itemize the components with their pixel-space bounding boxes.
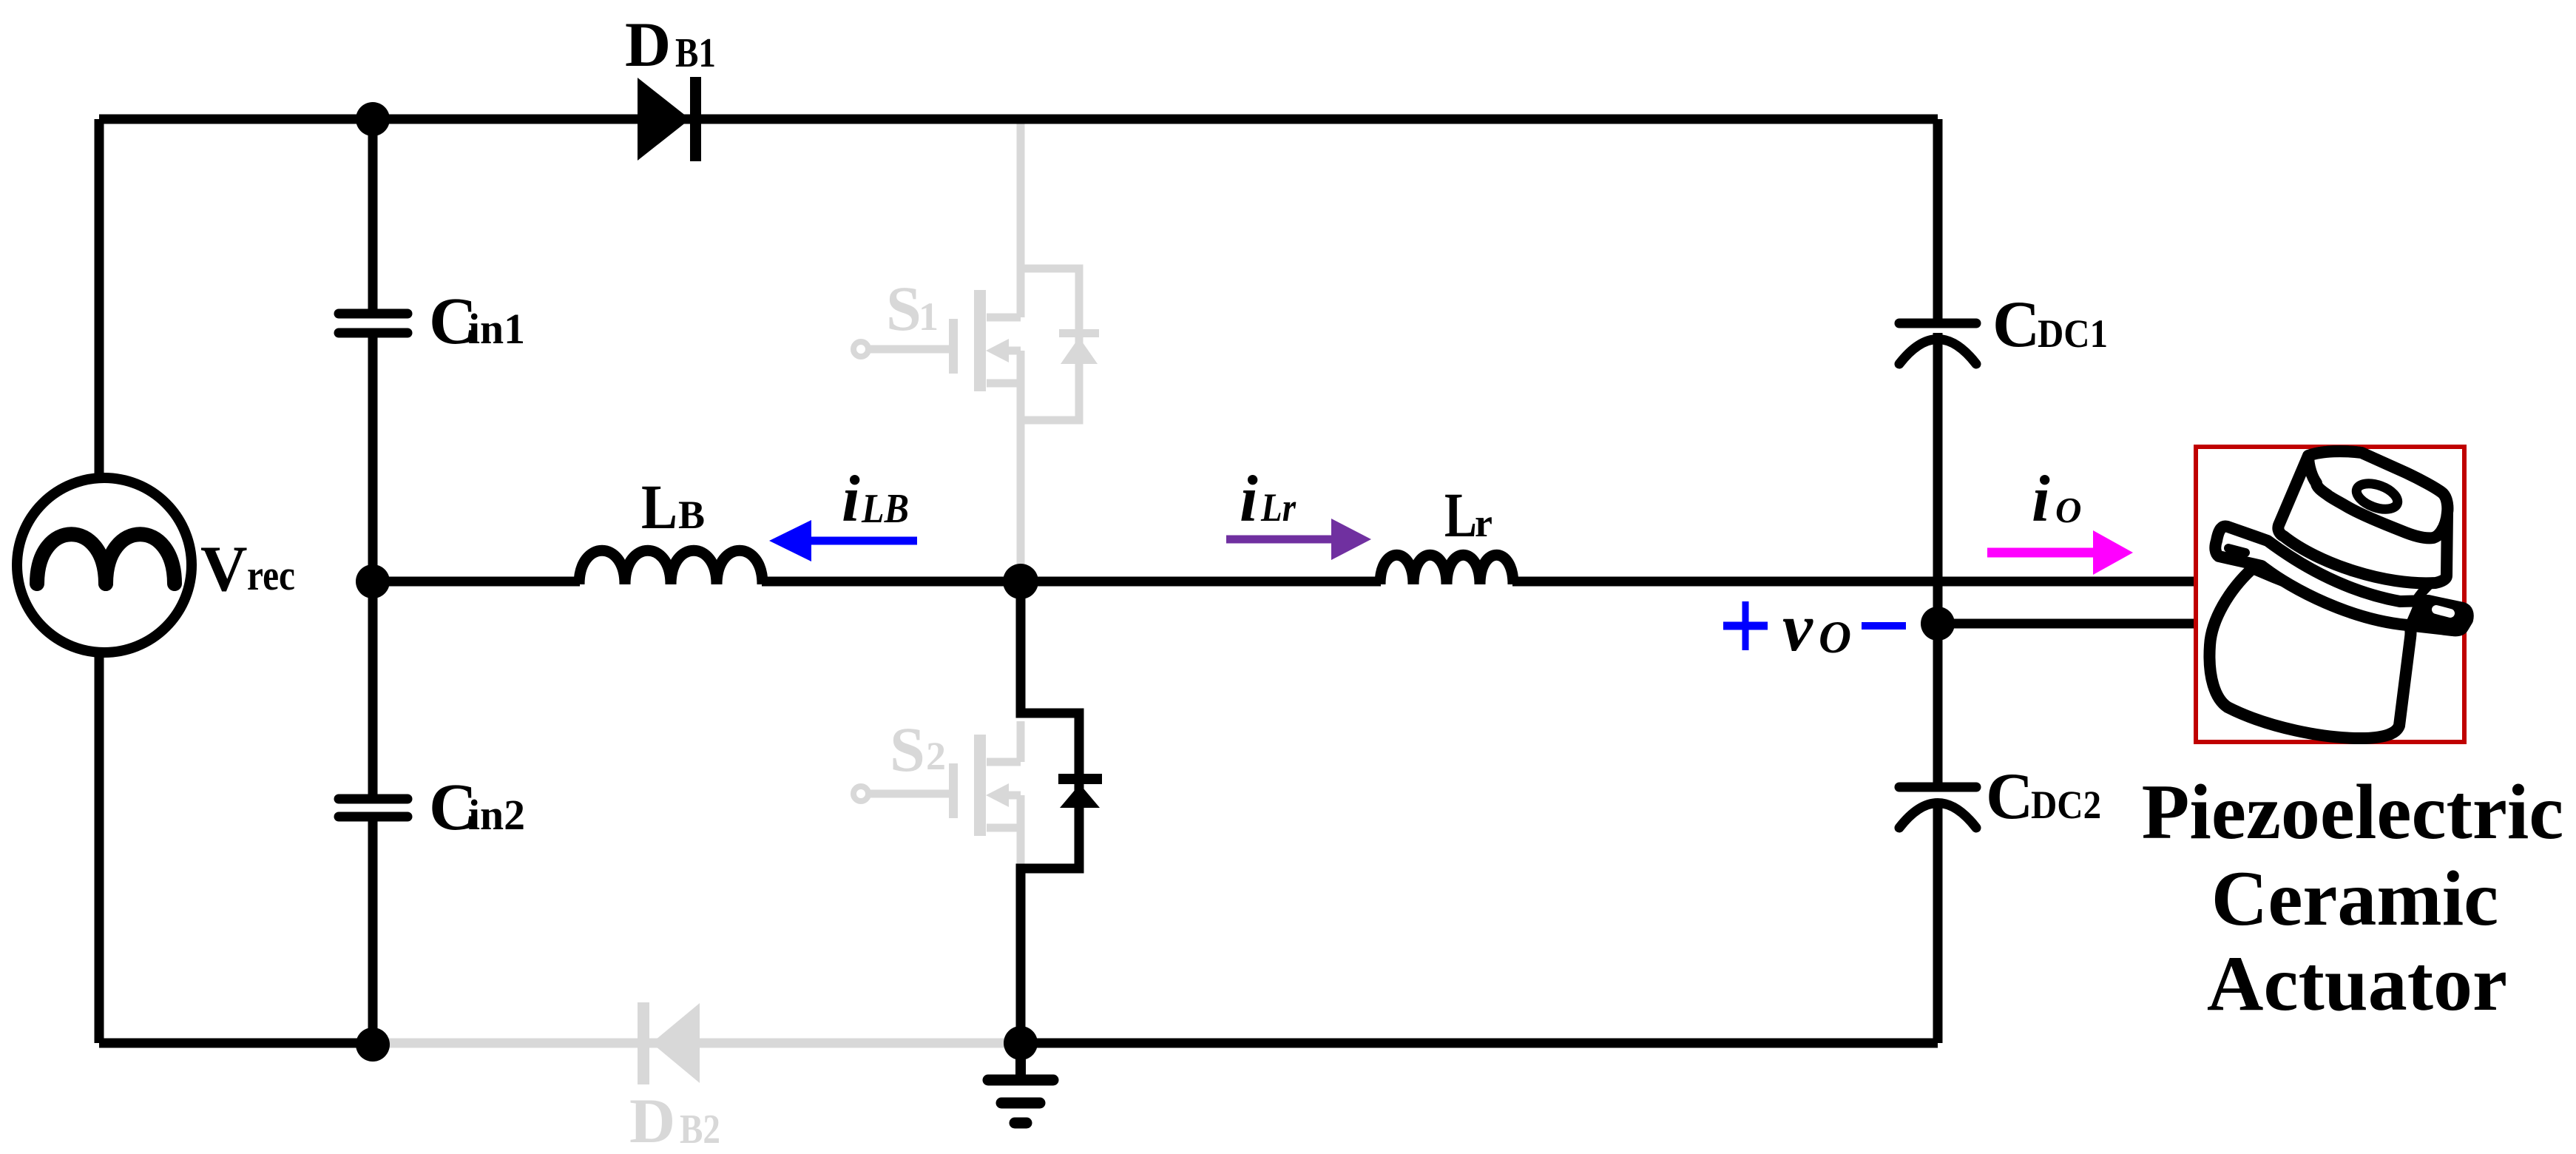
capacitor CDC1 (polarized)	[1899, 319, 1976, 328]
svg-text:C: C	[1992, 288, 2040, 361]
svg-text:S: S	[890, 714, 925, 785]
svg-text:DC2: DC2	[2031, 783, 2101, 827]
node mid junction	[1003, 564, 1038, 599]
wire output lower	[1938, 619, 2196, 629]
wire left vertical lower	[95, 655, 104, 1043]
svg-text:B1: B1	[675, 30, 716, 76]
svg-text:B2: B2	[680, 1107, 720, 1153]
svg-text:LB: LB	[861, 486, 909, 532]
arrow iO (magenta)	[1987, 548, 2095, 558]
svg-text:in2: in2	[468, 791, 525, 839]
diode DB2 (gray, inactive)	[638, 1002, 700, 1084]
node bottom-left junction	[356, 1028, 390, 1062]
svg-text:Ceramic: Ceramic	[2211, 855, 2498, 942]
svg-text:DC1: DC1	[2038, 311, 2108, 356]
svg-text:B: B	[678, 493, 705, 537]
transistor S1 (gray, inactive)	[853, 119, 1079, 581]
wire bottom rail gray (through DB2)	[373, 1039, 1021, 1048]
node mid-left junction	[356, 564, 390, 598]
wire mid rail left	[373, 577, 580, 587]
inductor Lr	[1380, 555, 1513, 584]
svg-text:D: D	[629, 1085, 675, 1154]
svg-text:rec: rec	[247, 551, 295, 599]
wire right vertical segments	[1933, 119, 1943, 323]
node ground junction	[1004, 1026, 1038, 1060]
wire Cin column segments	[368, 119, 378, 314]
svg-text:2: 2	[926, 734, 946, 778]
svg-text:Piezoelectric: Piezoelectric	[2142, 769, 2564, 855]
diode S2 body (black)	[1058, 774, 1102, 784]
svg-text:O: O	[2055, 490, 2081, 530]
svg-text:i: i	[1240, 463, 1258, 536]
svg-text:Lr: Lr	[1260, 485, 1297, 530]
source Vrec	[17, 478, 192, 652]
svg-text:1: 1	[919, 294, 939, 339]
svg-text:O: O	[1819, 613, 1851, 663]
capacitor Cin1	[339, 309, 408, 319]
label + vO -	[1723, 622, 1768, 630]
capacitor Cin2	[339, 794, 408, 804]
node top-left junction	[356, 102, 390, 136]
node output junction	[1921, 607, 1955, 641]
arrow iLr (purple)	[1226, 536, 1331, 544]
capacitor CDC2 (polarized)	[1899, 783, 1976, 792]
svg-text:D: D	[625, 9, 671, 80]
svg-text:i: i	[842, 463, 860, 536]
transistor S2 (gray symbol, black diode path)	[853, 721, 1021, 868]
svg-text:L: L	[641, 471, 677, 542]
diode DB1	[638, 78, 690, 161]
svg-text:S: S	[886, 273, 922, 344]
svg-text:Actuator: Actuator	[2207, 940, 2507, 1027]
svg-text:C: C	[1986, 760, 2033, 833]
svg-text:in1: in1	[468, 305, 525, 353]
arrow iLB (blue)	[811, 537, 917, 545]
inductor LB	[579, 550, 763, 584]
svg-text:V: V	[200, 533, 248, 605]
svg-text:v: v	[1782, 590, 1813, 665]
svg-text:L: L	[1444, 479, 1477, 550]
wire top rail	[99, 115, 1938, 124]
wire left vertical upper	[95, 119, 104, 477]
svg-text:i: i	[2032, 463, 2050, 536]
svg-text:r: r	[1475, 501, 1492, 545]
ground	[1015, 1043, 1026, 1080]
piezoelectric actuator box (red)	[2196, 447, 2464, 742]
piezoelectric actuator drawing	[2209, 451, 2467, 738]
wire mid rail center	[762, 577, 1381, 587]
wire bottom rail right (black)	[1021, 1039, 1938, 1048]
wire S2 black path with diode	[1021, 581, 1079, 1043]
wire mid rail right	[1512, 577, 2196, 587]
wire bottom rail left (black)	[99, 1039, 377, 1048]
